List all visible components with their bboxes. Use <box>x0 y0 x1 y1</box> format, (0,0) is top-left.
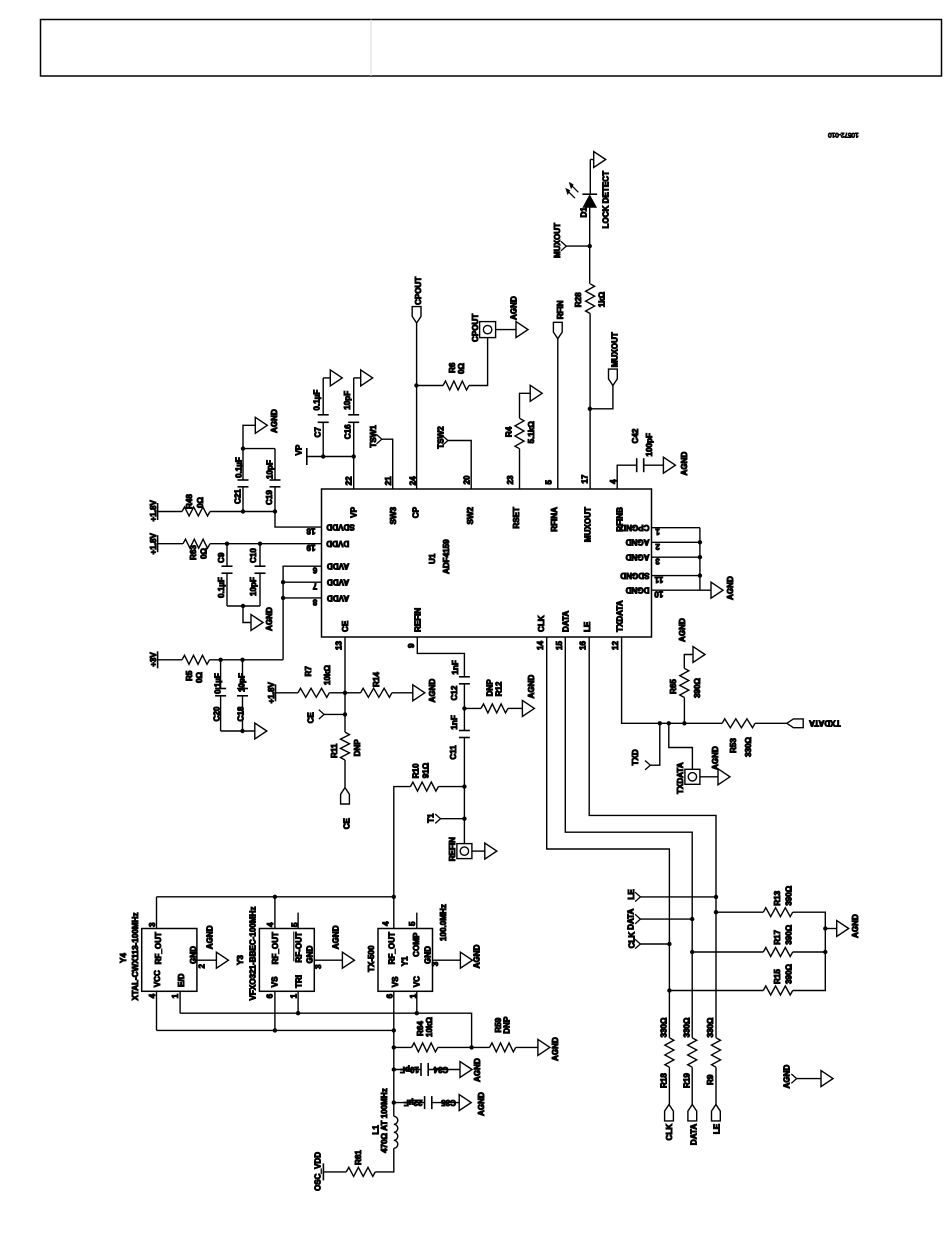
svg-text:R6: R6 <box>448 362 457 373</box>
svg-text:TRI: TRI <box>294 975 303 988</box>
wire <box>329 692 345 694</box>
svg-text:MUXOUT: MUXOUT <box>553 223 562 258</box>
capacitor C7 <box>322 422 324 456</box>
connector stub TSW2 <box>443 436 448 445</box>
svg-text:SW3: SW3 <box>389 507 398 525</box>
svg-text:14: 14 <box>536 640 545 650</box>
svg-text:4: 4 <box>609 479 618 484</box>
svg-text:100.0MHz: 100.0MHz <box>439 904 448 941</box>
resistor R10 <box>438 786 464 788</box>
svg-text:22: 22 <box>344 476 353 486</box>
svg-text:3: 3 <box>655 557 660 566</box>
pin 5 RF-OUT-bar stub <box>297 913 299 929</box>
resistor R12 DNP <box>464 707 481 709</box>
svg-text:Y4: Y4 <box>119 953 128 963</box>
node C21 bottom junction <box>241 509 245 513</box>
node C18 junction <box>240 658 244 662</box>
svg-text:CLK: CLK <box>628 932 637 949</box>
wire <box>353 457 355 490</box>
svg-text:10pF: 10pF <box>249 577 258 596</box>
node Y1 VS junction <box>392 1028 396 1032</box>
resistor R18 <box>665 1038 674 1067</box>
node VC junction <box>415 1011 419 1015</box>
svg-text:R4: R4 <box>504 426 513 437</box>
svg-text:AGND: AGND <box>265 607 274 631</box>
svg-text:SDVDD: SDVDD <box>326 523 354 532</box>
resistor R48 <box>182 507 210 516</box>
svg-text:TSW1: TSW1 <box>369 425 378 448</box>
wire <box>793 952 826 991</box>
svg-text:CLK: CLK <box>665 1124 674 1141</box>
svg-text:AGND: AGND <box>851 914 860 938</box>
wire AGND stub <box>652 541 700 543</box>
node R59 junction <box>469 1045 473 1049</box>
svg-text:23: 23 <box>506 475 515 485</box>
svg-text:6: 6 <box>312 566 317 575</box>
svg-text:AGND: AGND <box>551 1037 560 1061</box>
wire <box>428 1069 460 1071</box>
resistor R59 DNP <box>472 1046 490 1048</box>
pin 6 VS <box>274 991 276 1030</box>
svg-text:GND: GND <box>424 946 433 964</box>
svg-text:MUXOUT: MUXOUT <box>611 332 620 367</box>
svg-text:RFIN: RFIN <box>556 300 565 319</box>
svg-text:REFIN: REFIN <box>448 837 457 861</box>
node C19 bottom junction <box>273 509 277 513</box>
svg-text:R9: R9 <box>706 1074 715 1085</box>
svg-text:5: 5 <box>290 922 299 927</box>
ground arrow AGND <box>522 700 534 716</box>
wire RF_OUT rail <box>157 896 394 898</box>
svg-text:COMP: COMP <box>412 932 421 957</box>
svg-text:DATA: DATA <box>561 611 570 632</box>
svg-text:5: 5 <box>408 921 417 926</box>
svg-text:9: 9 <box>407 643 416 648</box>
capacitor C21 <box>242 487 244 512</box>
node TXD junction <box>658 721 662 725</box>
svg-text:GND: GND <box>306 945 315 963</box>
svg-text:390Ω: 390Ω <box>693 677 702 698</box>
svg-text:VC: VC <box>413 976 422 987</box>
svg-text:C10: C10 <box>249 548 258 563</box>
svg-text:+3V: +3V <box>149 652 158 667</box>
svg-text:1: 1 <box>290 993 299 998</box>
svg-text:C42: C42 <box>631 428 640 443</box>
svg-text:TSW2: TSW2 <box>436 426 445 449</box>
svg-text:ADF4159: ADF4159 <box>442 539 451 574</box>
capacitor C19 <box>274 487 276 512</box>
svg-text:AGND: AGND <box>331 925 340 949</box>
resistor R7 <box>298 688 329 697</box>
svg-text:CPOUT: CPOUT <box>414 277 423 305</box>
svg-text:100pF: 100pF <box>645 433 654 456</box>
svg-text:TXDATA: TXDATA <box>616 600 625 632</box>
svg-text:AGND: AGND <box>510 296 519 320</box>
wire <box>684 655 693 669</box>
node CE-R7 junction <box>343 691 347 695</box>
svg-text:R64: R64 <box>416 1021 425 1036</box>
resistor R15 <box>667 988 671 992</box>
svg-text:10pF: 10pF <box>266 460 275 479</box>
svg-text:AGND: AGND <box>473 944 482 968</box>
svg-text:RF_OUT: RF_OUT <box>271 932 280 964</box>
svg-text:4: 4 <box>266 922 275 927</box>
svg-text:AGND: AGND <box>711 746 720 770</box>
svg-text:C9: C9 <box>217 552 226 563</box>
oscillator Y1 TX-500 body <box>378 929 433 992</box>
svg-text:VP: VP <box>294 444 303 455</box>
svg-text:D1: D1 <box>580 207 589 218</box>
svg-text:+1.8V: +1.8V <box>267 682 276 704</box>
capacitor C42 <box>636 458 638 472</box>
wire <box>394 787 411 897</box>
svg-text:0.1µF: 0.1µF <box>313 390 322 411</box>
svg-text:CE: CE <box>343 817 352 829</box>
svg-text:390Ω: 390Ω <box>785 924 794 945</box>
capacitor C10 <box>259 544 261 567</box>
power +1.8V <box>275 684 277 701</box>
wire <box>755 722 787 724</box>
svg-text:Y3: Y3 <box>236 955 245 965</box>
wire DGND stub <box>652 589 700 591</box>
pin 3 GND <box>314 959 342 961</box>
wire AVDD pin8 stub <box>283 597 321 599</box>
svg-text:C20: C20 <box>213 706 222 721</box>
svg-text:R19: R19 <box>682 1073 691 1088</box>
svg-text:6: 6 <box>265 993 274 998</box>
wire <box>516 1046 538 1048</box>
svg-text:AGND: AGND <box>783 1065 792 1089</box>
wire <box>715 1067 717 1104</box>
wire <box>700 776 718 778</box>
node CE stub junction <box>343 712 347 716</box>
connector stub LE <box>635 892 640 901</box>
svg-text:DNP: DNP <box>503 1016 512 1034</box>
wire <box>210 659 284 661</box>
node C12-R12 junction <box>462 706 466 710</box>
connector stub MUXOUT <box>561 241 566 250</box>
node C20 junction <box>218 658 222 662</box>
svg-text:U1: U1 <box>428 553 437 564</box>
node muxout-led junction <box>588 244 592 248</box>
svg-text:0Ω: 0Ω <box>457 362 466 374</box>
ground arrow <box>255 723 267 739</box>
resistor R63 <box>183 539 210 548</box>
ground arrow <box>530 385 542 401</box>
node C7 junction <box>321 454 325 458</box>
svg-text:AGND: AGND <box>527 675 536 699</box>
wire <box>323 1171 346 1173</box>
svg-text:330Ω: 330Ω <box>682 1017 691 1038</box>
svg-text:19: 19 <box>306 543 316 552</box>
svg-text:AGND: AGND <box>726 576 735 600</box>
svg-text:1kΩ: 1kΩ <box>597 291 606 307</box>
svg-text:C7: C7 <box>313 427 322 438</box>
connector stub DATA <box>635 914 640 923</box>
capacitor C18 <box>242 660 244 689</box>
ground arrow AGND <box>255 417 267 433</box>
node C9 junction <box>225 542 229 546</box>
connector stub CLK <box>635 939 640 948</box>
wire CPGND stub <box>652 527 700 529</box>
svg-text:VP: VP <box>349 506 358 517</box>
wire <box>644 464 664 466</box>
svg-text:TXDATA: TXDATA <box>676 762 685 794</box>
wire SDGND stub <box>652 575 700 577</box>
wire <box>344 760 346 788</box>
ground arrow AGND <box>711 582 723 598</box>
power VP <box>306 448 308 465</box>
inductor L1 <box>394 1116 398 1148</box>
capacitor C11 <box>463 708 465 730</box>
svg-text:5: 5 <box>545 480 554 485</box>
svg-text:AGND: AGND <box>678 618 687 642</box>
svg-text:10kΩ: 10kΩ <box>323 664 332 685</box>
svg-text:R14: R14 <box>372 672 381 687</box>
wire AVDD riser <box>283 566 321 660</box>
wire <box>589 314 591 490</box>
ground arrow <box>821 1071 833 1087</box>
svg-text:1: 1 <box>655 527 660 536</box>
wire <box>416 323 418 489</box>
svg-text:+1.8V: +1.8V <box>149 500 158 522</box>
svg-text:3: 3 <box>148 922 157 927</box>
oscillator Y3 VFXO321-BBEC-100MHz body <box>259 929 314 992</box>
ground arrow AGND <box>837 921 849 937</box>
node R28-MUXOUT pin junction <box>588 407 592 411</box>
wire <box>382 439 393 489</box>
wire <box>825 928 836 930</box>
wire <box>276 692 299 694</box>
capacitor C16 <box>353 422 355 456</box>
svg-text:10: 10 <box>654 590 664 599</box>
svg-text:VFXO321-BBEC-100MHz: VFXO321-BBEC-100MHz <box>249 906 258 1000</box>
wire <box>589 207 591 283</box>
svg-text:DVDD: DVDD <box>326 539 349 548</box>
svg-text:0.1µF: 0.1µF <box>217 577 226 598</box>
power +1.8V <box>157 535 159 552</box>
svg-text:R63: R63 <box>189 545 198 560</box>
test point CPOUT <box>480 322 496 338</box>
node Y3 junction <box>273 895 277 899</box>
wire <box>617 465 637 489</box>
svg-text:TX-500: TX-500 <box>367 945 376 972</box>
svg-text:C21: C21 <box>234 489 243 504</box>
wire to pin 18 <box>275 512 322 528</box>
svg-text:AGND: AGND <box>626 538 650 547</box>
svg-text:3: 3 <box>314 964 323 969</box>
svg-text:CE: CE <box>341 620 350 632</box>
ground arrow <box>361 370 373 386</box>
svg-text:6: 6 <box>385 993 394 998</box>
node R10 junction <box>462 784 466 788</box>
pin 4 RF_OUT <box>274 897 276 929</box>
svg-text:R28: R28 <box>574 292 583 307</box>
wire LE <box>589 637 716 1038</box>
svg-text:10pF: 10pF <box>343 391 352 410</box>
svg-text:AGND: AGND <box>477 1092 486 1116</box>
pin 4 VCC <box>156 991 158 1030</box>
wire <box>210 511 275 513</box>
wire <box>448 441 471 490</box>
svg-text:DNP: DNP <box>353 739 362 757</box>
svg-text:OSC_VDD: OSC_VDD <box>313 1152 322 1191</box>
capacitor C9 <box>226 544 228 567</box>
resistor R4 <box>515 418 524 448</box>
ground arrow AGND <box>216 952 228 968</box>
svg-text:R5: R5 <box>185 670 194 681</box>
resistor R6 <box>416 385 443 387</box>
wire <box>158 543 183 545</box>
connector CE flag <box>341 788 350 804</box>
wire <box>158 659 182 661</box>
ground arrow AGND <box>693 647 705 663</box>
pin 6 VS <box>393 991 395 1116</box>
wire CE pin line <box>344 637 346 732</box>
pin 2 GND <box>197 959 217 961</box>
svg-text:21: 21 <box>384 476 393 486</box>
wire AVDD pin7 stub <box>283 581 321 583</box>
wire <box>469 338 488 386</box>
svg-text:C18: C18 <box>237 706 246 721</box>
svg-text:0Ω: 0Ω <box>196 496 205 508</box>
svg-text:AGND: AGND <box>473 1058 482 1082</box>
svg-text:2: 2 <box>655 542 660 551</box>
svg-text:C16: C16 <box>344 424 353 439</box>
ground arrow AGND <box>538 1039 550 1055</box>
resistor R17 <box>690 950 694 954</box>
svg-text:R65: R65 <box>669 679 678 694</box>
node T1 junction <box>462 817 466 821</box>
svg-text:LE: LE <box>583 621 592 632</box>
svg-text:390Ω: 390Ω <box>785 885 794 906</box>
svg-text:24: 24 <box>409 476 418 486</box>
svg-text:R53: R53 <box>729 738 738 753</box>
wire <box>392 692 413 694</box>
svg-text:13: 13 <box>335 640 344 650</box>
ground arrow AGND <box>663 457 675 473</box>
resistor R19 <box>688 1038 697 1067</box>
resistor R13 <box>714 910 718 914</box>
svg-text:RSET: RSET <box>512 507 521 529</box>
node TRI junction <box>296 1011 300 1015</box>
svg-text:SW2: SW2 <box>466 507 475 525</box>
svg-text:VS: VS <box>391 976 400 987</box>
wire <box>243 425 255 448</box>
svg-text:1nF: 1nF <box>451 660 460 674</box>
power +3V <box>157 651 159 668</box>
svg-text:Y1: Y1 <box>400 956 409 966</box>
svg-text:R17: R17 <box>773 929 782 944</box>
svg-text:1: 1 <box>409 993 418 998</box>
svg-text:AGND: AGND <box>270 409 279 433</box>
capacitor C35 <box>392 1100 396 1104</box>
svg-text:RF-OUT: RF-OUT <box>294 932 303 963</box>
svg-text:MUXOUT: MUXOUT <box>583 507 592 542</box>
connector stub TSW1 <box>377 435 382 444</box>
svg-text:AVDD: AVDD <box>327 562 349 571</box>
node AGND drop junction <box>241 604 245 608</box>
wire enable rail <box>180 1013 472 1047</box>
svg-text:AVDD: AVDD <box>327 578 349 587</box>
svg-text:R13: R13 <box>773 890 782 905</box>
node Y3 VS junction <box>273 1028 277 1032</box>
svg-text:AGND: AGND <box>680 452 689 476</box>
svg-text:0Ω: 0Ω <box>200 547 209 559</box>
svg-text:RF_OUT: RF_OUT <box>388 932 397 964</box>
wire <box>519 449 521 489</box>
node testpoint junction <box>667 721 671 725</box>
svg-text:REFIN: REFIN <box>413 608 422 632</box>
svg-text:AGND: AGND <box>626 553 650 562</box>
svg-text:VCC: VCC <box>153 970 162 987</box>
wire TXDATA <box>622 637 723 723</box>
svg-text:R15: R15 <box>773 969 782 984</box>
svg-text:R48: R48 <box>185 494 194 509</box>
svg-text:C11: C11 <box>449 745 458 760</box>
svg-text:C19: C19 <box>265 490 274 505</box>
wire <box>590 386 613 409</box>
svg-text:4: 4 <box>148 993 157 998</box>
ground arrow above D1 <box>590 159 593 161</box>
svg-text:12: 12 <box>611 640 620 650</box>
svg-text:4: 4 <box>381 921 390 926</box>
pin 3 RF_OUT <box>156 897 158 929</box>
svg-text:22µF: 22µF <box>404 1098 423 1107</box>
svg-text:17: 17 <box>581 474 590 484</box>
ground arrow AGND <box>459 1095 471 1111</box>
oscillator Y4 XTAL-CWX113-100MHz body <box>142 929 197 992</box>
svg-text:470Ω AT 100MHz: 470Ω AT 100MHz <box>380 1088 389 1153</box>
ground arrow AGND <box>460 952 472 968</box>
resistor R53 <box>722 719 755 728</box>
connector stub T1 <box>435 814 440 823</box>
svg-text:E/D: E/D <box>177 973 186 987</box>
resistor R9 <box>712 1038 721 1067</box>
wire <box>589 160 591 195</box>
wire <box>557 339 559 489</box>
ground arrow <box>485 843 497 859</box>
node R65 junction <box>682 721 686 725</box>
svg-text:AGND: AGND <box>205 925 214 949</box>
wire <box>243 606 251 623</box>
svg-text:10pF: 10pF <box>238 673 247 692</box>
wire <box>793 912 826 928</box>
ground arrow <box>330 370 342 386</box>
svg-text:+1.8V: +1.8V <box>149 533 158 555</box>
svg-text:0.1µF: 0.1µF <box>235 457 244 478</box>
node AGND branch junction <box>241 446 245 450</box>
svg-text:AGND: AGND <box>428 679 437 703</box>
resistor R11 DNP <box>341 732 350 760</box>
svg-text:CPOUT: CPOUT <box>471 314 480 342</box>
power OSC_VDD <box>322 1163 324 1180</box>
svg-text:330Ω: 330Ω <box>706 1017 715 1038</box>
svg-text:CPGND: CPGND <box>620 523 649 532</box>
svg-text:R18: R18 <box>660 1073 669 1088</box>
svg-text:RFINA: RFINA <box>550 507 559 532</box>
connector CLK flag <box>665 1105 674 1121</box>
capacitor C12 <box>459 676 470 678</box>
node AGND junction <box>823 926 827 930</box>
svg-text:330Ω: 330Ω <box>744 736 753 757</box>
wire <box>668 1067 670 1104</box>
capacitor C34 <box>392 1067 396 1071</box>
wire <box>432 1102 459 1104</box>
svg-text:AVDD: AVDD <box>327 593 349 602</box>
svg-text:R12: R12 <box>495 681 504 696</box>
resistor R14 <box>345 692 361 694</box>
